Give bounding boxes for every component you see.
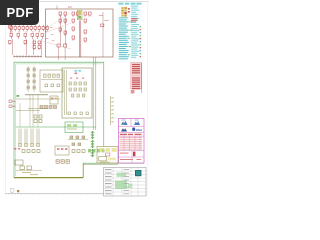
svg-text:HSA: HSA — [136, 128, 143, 132]
svg-text:0.3: 0.3 — [68, 5, 72, 9]
svg-text:PDF: PDF — [7, 5, 34, 20]
